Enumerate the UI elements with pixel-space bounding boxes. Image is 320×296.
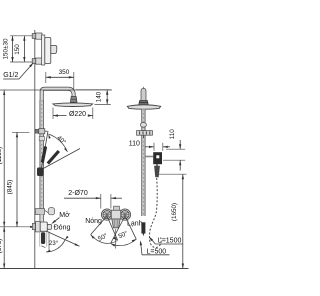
bottom inlet fitting (10, 58, 42, 64)
hand shower position 1 (steep) (42, 147, 45, 163)
svg-text:Đóng: Đóng (54, 225, 71, 232)
dimension 2-Ø70 (64, 190, 122, 209)
riser pipe (front view) (142, 109, 145, 216)
top inlet fitting (10, 33, 42, 39)
pipe collar ring (39, 137, 44, 141)
hand shower (front, hanging) (156, 164, 158, 166)
label G1/2 with leader (3, 63, 33, 79)
pipe support tee (side) (35, 209, 44, 215)
bottom valve (side view) (32, 223, 35, 229)
mixer center body (front) (111, 210, 120, 219)
hot handle (front) (103, 211, 111, 219)
dimension (845) (6, 132, 29, 227)
svg-text:Ø220: Ø220 (69, 111, 86, 118)
dimension 110 vertical (163, 129, 185, 171)
dimension 110 horizontal (129, 141, 170, 151)
left handle swing rays (91, 216, 107, 234)
mixer escutcheon plate (side) (42, 35, 45, 65)
wall bracket (side view) (35, 129, 39, 133)
svg-text:110: 110 (129, 141, 140, 148)
wall line (side view) (34, 30, 36, 269)
shower arm end-on (front) (141, 88, 146, 101)
valve centerline extension (0, 226, 33, 228)
svg-text:140: 140 (95, 91, 102, 102)
svg-text:(1650): (1650) (171, 203, 178, 221)
svg-text:350: 350 (59, 69, 70, 76)
hand shower ray steep (42, 131, 49, 168)
svg-text:(375): (375) (0, 239, 3, 254)
floor line (0, 268, 189, 270)
svg-text:23°: 23° (49, 239, 59, 247)
ball joint (front) (139, 101, 149, 106)
svg-text:Mở: Mở (59, 211, 70, 219)
dimension 350 (46, 69, 74, 96)
shower head (front view) (127, 105, 160, 109)
hose (dashed) (149, 178, 161, 247)
mixer body (side) (45, 38, 51, 64)
arc 40° (49, 134, 68, 152)
hand shower holder clamp (37, 168, 44, 177)
cold handle (front) (121, 211, 129, 219)
svg-text:150: 150 (14, 44, 21, 55)
hand shower position 2 (tilted) (48, 151, 59, 164)
svg-text:110: 110 (169, 129, 176, 140)
svg-text:2-Ø70: 2-Ø70 (68, 190, 88, 197)
left escutcheon Ø70 (101, 209, 112, 220)
mixer handle (side) (51, 45, 57, 53)
dimension Ø220 (53, 108, 93, 120)
svg-text:150±30: 150±30 (2, 38, 9, 59)
riser pipe (side view) (42, 89, 74, 103)
right handle swing rays (111, 216, 125, 243)
svg-text:(845): (845) (6, 180, 13, 195)
shower head (side view) (53, 103, 93, 107)
svg-text:L=1500: L=1500 (158, 238, 182, 245)
arc 23° (46, 240, 65, 252)
mixer centerline below spout (115, 229, 117, 249)
arc 50° right (111, 239, 137, 246)
diverter pull knob (39, 232, 41, 247)
23° reference line (48, 232, 50, 252)
dimension 150±30 (2, 36, 13, 62)
arc 50° left (91, 235, 118, 244)
diverter spout (front) (112, 219, 120, 228)
23° direction ray (46, 231, 80, 246)
wall bracket (front view) (137, 131, 153, 136)
svg-text:G1/2: G1/2 (3, 72, 18, 79)
right escutcheon Ø70 (119, 209, 130, 220)
svg-text:(1130): (1130) (0, 147, 3, 165)
overall height dimension (clipped, chained) (0, 90, 112, 269)
dimension 150 (14, 36, 25, 62)
hand shower holder box (145, 156, 153, 158)
leader for Mở (53, 218, 60, 224)
hose connector at valve (141, 222, 145, 233)
svg-text:L=500: L=500 (147, 248, 167, 255)
dimension 140 (76, 90, 111, 105)
ball joint (side) (70, 97, 77, 103)
dimension (1650) (157, 174, 187, 268)
pipe nut fitting (140, 123, 146, 128)
hand shower ray shallow (41, 149, 81, 171)
